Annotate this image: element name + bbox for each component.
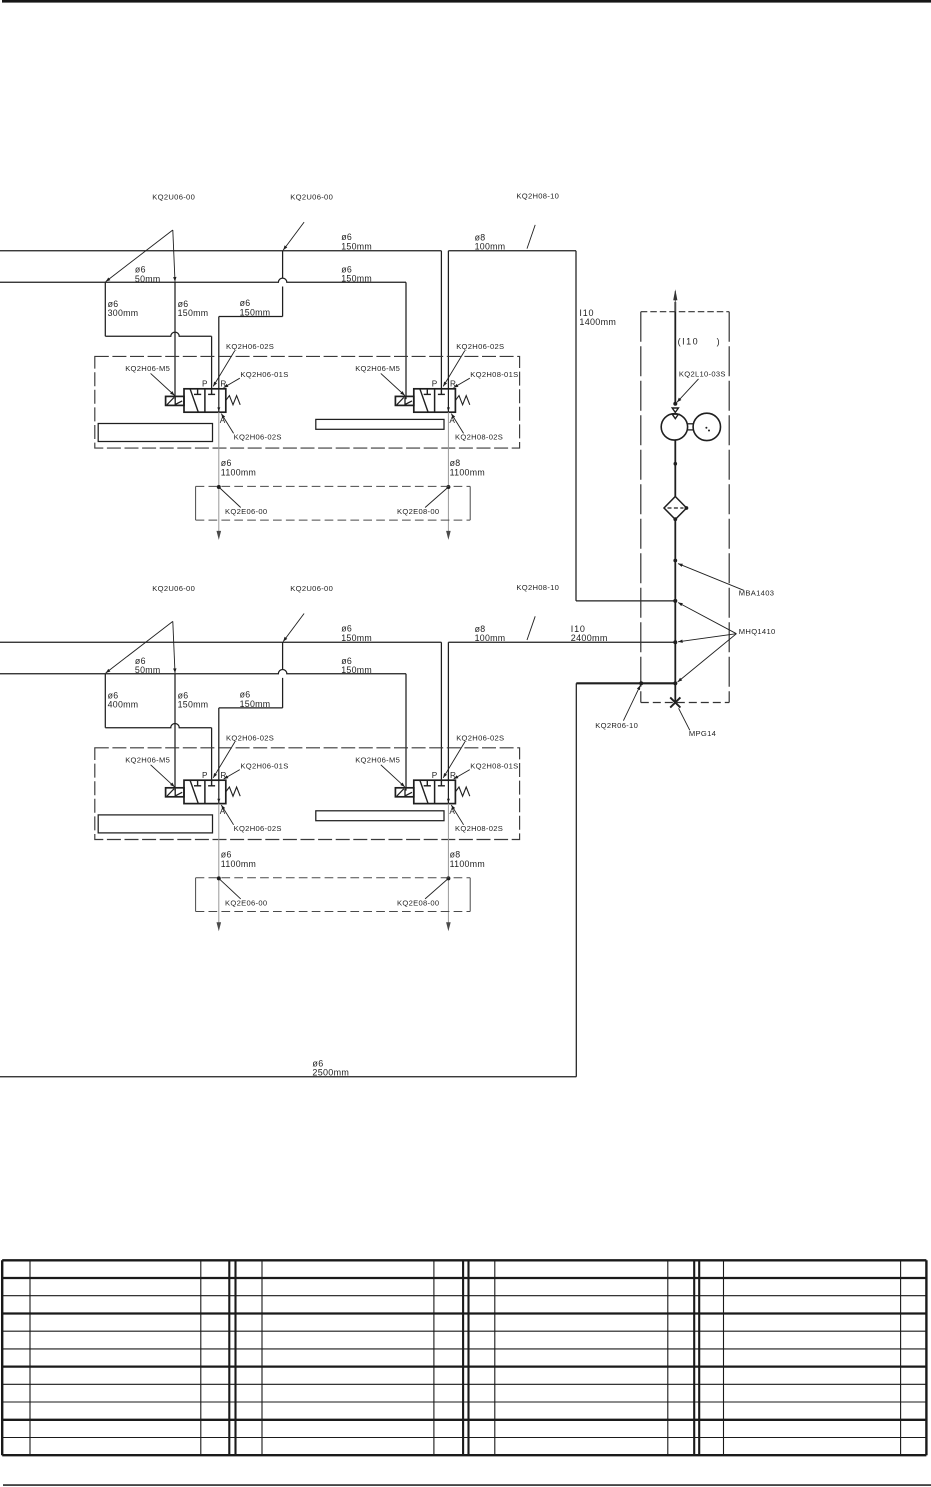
fitting KQ2H08-02S label (valve2 A): [451, 414, 503, 442]
check valve symbols (two triangles): [672, 408, 678, 419]
svg-text:150mm: 150mm: [341, 633, 372, 643]
junction for MBA1403: [673, 559, 677, 563]
fitting KQ2H06-M5 label (valve2 pilot): [355, 364, 405, 396]
fitting KQ2H06-02S label (valve2 P plug): [443, 734, 504, 778]
label I10 1400mm: [579, 308, 616, 327]
fitting KQ2H06-02S label (valve1 P plug): [213, 342, 274, 386]
svg-text:KQ2H06-M5: KQ2H06-M5: [355, 755, 400, 764]
leader to Y union 1 branch points: [106, 230, 177, 282]
valve C2V1 A-R exhaust passage: [217, 780, 220, 803]
wire: tube to valve1 R port: [218, 317, 220, 389]
label o6 150mm (R tube): [240, 298, 271, 317]
wire: circuit 1 supply line 2 (with hop over branch): [0, 278, 406, 282]
valve C1V1 A-R exhaust passage: [217, 389, 220, 412]
label o6 50mm: [135, 656, 161, 675]
fitting KQ2R06-10 label: [595, 685, 640, 730]
label o8 100mm: [475, 624, 506, 643]
svg-text:KQ2R06-10: KQ2R06-10: [595, 721, 638, 730]
wire: o6 drop from line1 to valve2 P: [440, 251, 442, 389]
wire: circuit 2 supply line 1 (left, to valve 2 P): [0, 641, 441, 643]
spring return of valve C2V2: [455, 787, 469, 796]
fitting KQ2H06-02S label (valve2 P plug): [443, 342, 504, 386]
svg-text:KQ2H06-02S: KQ2H06-02S: [456, 342, 504, 351]
label o6 150mm (pilot): [178, 690, 209, 709]
wire: bottom connector to return line: [576, 682, 675, 684]
arrow: air supply output (up): [673, 289, 677, 311]
fitting KQ2H06-01S label (valve1 R): [224, 761, 289, 779]
fitting KQ2U06-00 label (Y union 2): [290, 584, 333, 593]
wire: o6 300mm tube (branch 1 down, over to valve1 P): [105, 282, 211, 389]
valve C2V2 body (3-port solenoid valve): [414, 780, 456, 803]
label o6 300mm: [108, 299, 139, 318]
svg-text:KQ2L10-03S: KQ2L10-03S: [679, 370, 726, 379]
wire: circuit 1 supply line 1 (right, o8 segment): [448, 250, 576, 252]
svg-text:1100mm: 1100mm: [221, 859, 256, 869]
port label A: [220, 807, 226, 816]
silencer/exhaust dashed box: [196, 486, 471, 520]
svg-text:100mm: 100mm: [475, 633, 506, 643]
wire: o6 1100mm exhaust line from valve1 A: [217, 804, 222, 932]
pilot actuator (air operated, fitting KQ2H06-M5): [395, 788, 413, 797]
leader to KQ2H08-10 tee: [527, 225, 535, 249]
wire: o6 150mm line2 corner down to valve2 pilot: [405, 674, 407, 791]
fitting KQ2H06-02S label (valve1 A): [221, 414, 281, 442]
svg-text:KQ2E06-00: KQ2E06-00: [225, 899, 267, 908]
valve C1V1 body (3-port solenoid valve): [184, 389, 226, 412]
manifold block left: [98, 424, 212, 442]
fitting KQ2H06-M5 label (valve1 pilot): [125, 364, 174, 396]
svg-text:(I10: (I10: [678, 336, 700, 346]
leader to Y union 2: [283, 614, 304, 642]
pilot actuator (air operated, fitting KQ2H06-M5): [166, 788, 184, 797]
port label R: [220, 771, 226, 780]
label o8 1100mm: [450, 850, 485, 869]
port label A: [220, 416, 226, 425]
svg-text:KQ2E08-00: KQ2E08-00: [397, 899, 439, 908]
junction on exhaust box (valve2): [446, 485, 450, 489]
junction on exhaust box (valve2): [446, 876, 450, 880]
air source unit dashed enclosure: [641, 312, 729, 703]
svg-text:P: P: [202, 771, 208, 780]
valve C1V2 body (3-port solenoid valve): [414, 389, 456, 412]
filter (diamond): [664, 497, 688, 522]
wire: o6 1100mm exhaust line from valve1 A: [217, 412, 222, 540]
svg-text:KQ2H06-01S: KQ2H06-01S: [240, 370, 288, 379]
svg-text:KQ2H06-02S: KQ2H06-02S: [226, 734, 274, 743]
label o6 150mm (R tube): [240, 690, 271, 709]
port label A: [449, 807, 455, 816]
svg-text:1400mm: 1400mm: [579, 317, 616, 327]
valve C2V2 right position: blocked P port (plug): [438, 780, 445, 786]
junction KQ2R06-10 (reducer): [639, 681, 643, 685]
valve C2V1 left position: blocked port and P-A flow path: [190, 780, 201, 803]
wire: air unit main vertical line: [674, 302, 676, 703]
fitting KQ2E08-00 label: [397, 878, 448, 907]
wire: o6 drop from line1 to valve2 P: [440, 642, 442, 780]
svg-text:KQ2H06-02S: KQ2H06-02S: [234, 824, 282, 833]
top border bar: [2, 0, 931, 3]
label o8 100mm: [475, 232, 506, 251]
fitting KQ2H08-10 label (6-8 tee): [516, 192, 559, 201]
svg-text:P: P: [202, 379, 208, 388]
valve C2V2 left position: blocked port and P-A flow path: [420, 780, 431, 803]
fitting KQ2E08-00 label: [397, 487, 448, 516]
svg-text:KQ2H08-02S: KQ2H08-02S: [455, 824, 503, 833]
label o6 150mm (pilot): [178, 299, 209, 318]
fitting KQ2L10-03S label: [677, 370, 726, 403]
junction circuit2 feed: [673, 640, 677, 644]
svg-text:KQ2E08-00: KQ2E08-00: [397, 507, 439, 516]
svg-text:150mm: 150mm: [240, 307, 271, 317]
fitting KQ2U06-00 label (Y union 1): [152, 193, 195, 202]
svg-text:KQ2H06-01S: KQ2H06-01S: [240, 761, 288, 770]
port label A: [449, 416, 455, 425]
valve C1V2 left position: blocked port and P-A flow path: [420, 389, 431, 412]
label o6 150mm (line1): [341, 624, 372, 643]
wire: circuit 2 supply line 1 (right, o8 segment): [448, 641, 674, 643]
MHQ1410 label: [678, 603, 776, 683]
fitting KQ2U06-00 label (Y union 2): [290, 193, 333, 202]
wire: o6 150mm branch from Y2 down: [219, 251, 283, 317]
svg-text:KQ2U06-00: KQ2U06-00: [290, 193, 333, 202]
svg-text:150mm: 150mm: [178, 700, 209, 710]
svg-text:KQ2H06-M5: KQ2H06-M5: [125, 755, 170, 764]
port label P: [202, 379, 208, 388]
svg-text:1100mm: 1100mm: [450, 467, 485, 477]
label o6 2500mm: [312, 1059, 349, 1078]
wire: o8 1100mm exhaust line from valve2 A: [446, 804, 451, 932]
junction circuit1 feed: [673, 599, 677, 603]
svg-text:150mm: 150mm: [341, 665, 372, 675]
svg-text:50mm: 50mm: [135, 274, 161, 284]
svg-text:KQ2E06-00: KQ2E06-00: [225, 507, 267, 516]
fitting KQ2H08-01S label (valve2 R): [454, 761, 519, 779]
junction below compressor: [674, 462, 678, 466]
junction at air unit bottom: [673, 681, 677, 685]
svg-text:KQ2H06-M5: KQ2H06-M5: [355, 364, 400, 373]
fitting KQ2H06-M5 label (valve1 pilot): [125, 755, 174, 787]
junction on exhaust box (valve1): [217, 485, 221, 489]
manifold block left: [98, 815, 212, 833]
svg-text:KQ2H06-02S: KQ2H06-02S: [456, 734, 504, 743]
valve C2V1 right position: blocked P port (plug): [208, 780, 215, 786]
wire: o6 2500mm return line: [0, 683, 576, 1077]
svg-text:P: P: [432, 379, 438, 388]
label o8 1100mm: [450, 458, 485, 477]
port label R: [450, 771, 456, 780]
svg-text:100mm: 100mm: [475, 242, 506, 252]
bottom rule: [3, 1484, 931, 1486]
svg-text:KQ2U06-00: KQ2U06-00: [152, 584, 195, 593]
svg-text:KQ2H08-01S: KQ2H08-01S: [470, 370, 518, 379]
svg-text:KQ2U06-00: KQ2U06-00: [152, 193, 195, 202]
valve C2V2 A-R exhaust passage: [447, 780, 450, 803]
svg-text:KQ2H08-02S: KQ2H08-02S: [455, 432, 503, 441]
compressor circle: [661, 414, 687, 440]
fitting KQ2H06-02S label (valve1 P plug): [213, 734, 274, 778]
svg-text:150mm: 150mm: [341, 274, 372, 284]
svg-text:): ): [717, 336, 720, 346]
svg-text:1100mm: 1100mm: [450, 859, 485, 869]
pilot actuator (air operated, fitting KQ2H06-M5): [166, 396, 184, 405]
wire: o8 1100mm exhaust line from valve2 A: [446, 412, 451, 540]
wire: tube to valve1 R port: [218, 708, 220, 780]
svg-text:KQ2H08-10: KQ2H08-10: [516, 583, 559, 592]
label o6 50mm: [135, 265, 161, 284]
svg-text:P: P: [432, 771, 438, 780]
svg-text:KQ2H08-01S: KQ2H08-01S: [470, 761, 518, 770]
silencer/exhaust dashed box: [196, 878, 471, 912]
dashed enclosure around circuit 1 valves: [95, 356, 520, 448]
svg-text:50mm: 50mm: [135, 665, 161, 675]
label o6 400mm: [108, 690, 139, 709]
dashed enclosure around circuit 2 valves: [95, 748, 520, 840]
wire: circuit 1 supply line 1 (left, to valve 2 P): [0, 250, 441, 252]
junction above compressor: [673, 402, 677, 406]
label o6 1100mm: [221, 458, 256, 477]
plug MPG14 (X symbol): [670, 697, 680, 707]
port label P: [432, 771, 438, 780]
svg-text:400mm: 400mm: [108, 700, 139, 710]
wire: I10 1400mm riser from line1 down to air unit: [576, 251, 674, 601]
port label R: [450, 379, 456, 388]
spring return of valve C1V1: [226, 396, 240, 405]
fitting KQ2H08-01S label (valve2 R): [454, 370, 519, 388]
junction on exhaust box (valve1): [217, 876, 221, 880]
svg-text:MHQ1410: MHQ1410: [739, 627, 776, 636]
leader to Y union 1 branch points: [106, 621, 177, 673]
parts list table: [2, 1260, 926, 1455]
fitting KQ2H06-02S label (valve1 A): [221, 805, 281, 833]
svg-text:KQ2H08-10: KQ2H08-10: [516, 192, 559, 201]
fitting KQ2H06-01S label (valve1 R): [224, 370, 289, 388]
svg-text:150mm: 150mm: [240, 699, 271, 709]
fitting KQ2H08-02S label (valve2 A): [451, 805, 503, 833]
label o6 150mm (line2): [341, 656, 372, 675]
label o6 150mm (line1): [341, 232, 372, 251]
svg-text:1100mm: 1100mm: [221, 467, 256, 477]
port label P: [202, 771, 208, 780]
leader to Y union 2: [283, 222, 304, 250]
wire: o6 150mm pilot tube valve 1: [174, 674, 176, 791]
pilot actuator (air operated, fitting KQ2H06-M5): [395, 396, 413, 405]
leader to KQ2H08-10 tee: [527, 616, 535, 640]
label I10 2400mm: [571, 624, 608, 643]
fitting KQ2E06-00 label: [219, 487, 268, 516]
svg-text:KQ2H06-M5: KQ2H06-M5: [125, 364, 170, 373]
svg-text:2500mm: 2500mm: [312, 1068, 349, 1078]
svg-text:KQ2H06-02S: KQ2H06-02S: [234, 432, 282, 441]
port label R: [220, 379, 226, 388]
label o6 1100mm: [221, 850, 256, 869]
valve C1V1 left position: blocked port and P-A flow path: [190, 389, 201, 412]
valve C1V1 right position: blocked P port (plug): [208, 389, 215, 395]
label (I10): [678, 336, 720, 346]
fitting KQ2U06-00 label (Y union 1): [152, 584, 195, 593]
label o6 150mm (line2): [341, 264, 372, 283]
svg-text:KQ2H06-02S: KQ2H06-02S: [226, 342, 274, 351]
fitting KQ2H08-10 label (6-8 tee): [516, 583, 559, 592]
svg-text:2400mm: 2400mm: [571, 633, 608, 643]
spring return of valve C2V1: [226, 787, 240, 796]
svg-text:MBA1403: MBA1403: [739, 588, 774, 597]
svg-text:150mm: 150mm: [341, 241, 372, 251]
motor circle: [693, 413, 720, 440]
valve C2V1 body (3-port solenoid valve): [184, 780, 226, 803]
valve C1V2 right position: blocked P port (plug): [438, 389, 445, 395]
wire: circuit 2 supply line 2 (with hop over branch): [0, 670, 406, 674]
valve C1V2 A-R exhaust passage: [447, 389, 450, 412]
fitting KQ2H06-M5 label (valve2 pilot): [355, 755, 405, 787]
svg-text:300mm: 300mm: [108, 308, 139, 318]
wire: o8 drop from line1 to valve2 R: [447, 642, 449, 780]
svg-text:150mm: 150mm: [178, 308, 209, 318]
MBA1403 label: [678, 564, 774, 598]
fitting KQ2E06-00 label: [219, 878, 268, 907]
spring return of valve C1V2: [455, 396, 469, 405]
wire: o6 150mm pilot tube valve 1: [174, 282, 176, 399]
svg-text:MPG14: MPG14: [689, 729, 716, 738]
manifold block right: [316, 419, 444, 429]
port label P: [432, 379, 438, 388]
MPG14 label: [679, 708, 717, 738]
wire: o6 150mm line2 corner down to valve2 pilot: [405, 282, 407, 399]
svg-text:KQ2U06-00: KQ2U06-00: [290, 584, 333, 593]
wire: o8 drop from line1 to valve2 R: [447, 251, 449, 389]
manifold block right: [316, 811, 444, 821]
coupling between compressor and motor: [688, 424, 694, 430]
wire: o6 150mm branch from Y2 down: [219, 642, 283, 708]
wire: o6 400mm tube (branch 1 down, over to valve1 P): [105, 674, 211, 781]
